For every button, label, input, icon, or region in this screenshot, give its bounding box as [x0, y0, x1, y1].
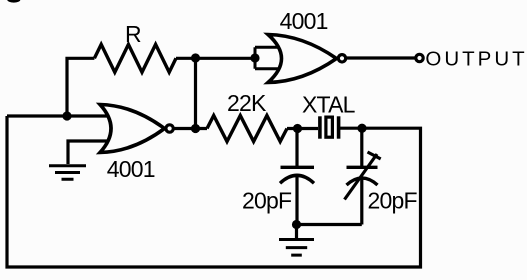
crystal XTAL left plate [318, 116, 322, 138]
NOR gate U1a [268, 35, 337, 83]
wire: vertical from node A down to node C [194, 58, 197, 129]
wire: gate U1b bottom input to ground riser [68, 141, 112, 164]
crystal XTAL right plate [337, 116, 341, 138]
gate U1a input bracket [255, 47, 282, 68]
svg-text:XTAL: XTAL [302, 91, 356, 117]
capacitor C2 bottom plate (curved) [347, 178, 378, 185]
node B junction dot on bracket [250, 53, 259, 62]
wire: bottom connecting C1 and C2 [297, 223, 362, 226]
node dot at gate U1b top input [62, 111, 71, 120]
ground G2 [279, 240, 314, 256]
svg-text:20pF: 20pF [242, 188, 292, 214]
capacitor C2 top plate [347, 166, 378, 169]
node D junction dot [293, 124, 302, 133]
wire: gate U1a output to terminal [347, 56, 415, 59]
wire: gate U1b output to 22K [175, 127, 208, 130]
gate U1b output bubble [166, 125, 173, 132]
wire: C1 bottom to ground node [295, 176, 298, 225]
svg-text:20pF: 20pF [368, 188, 418, 214]
svg-text:22K: 22K [227, 90, 267, 116]
variable capacitor arrow shaft [345, 154, 378, 200]
node C junction dot [191, 124, 200, 133]
svg-text:4001: 4001 [280, 8, 328, 34]
node E junction dot [357, 124, 366, 133]
wire: C2 bottom down [360, 179, 363, 225]
capacitor C1 top plate [281, 166, 315, 169]
cropped text fragment top-left [7, 0, 20, 3]
wire: 22K to crystal left plate [287, 127, 318, 130]
ground G1 [49, 166, 86, 180]
svg-text:OUTPUT: OUTPUT [425, 48, 527, 71]
wire: R left lead and vertical down to gate U1b input [67, 58, 94, 116]
wire: crystal right plate to node E [339, 127, 362, 130]
svg-text:4001: 4001 [107, 156, 155, 182]
resistor 22K [207, 116, 287, 142]
wire: R right lead to gate U1a input bracket [176, 57, 255, 60]
node A junction dot [191, 53, 200, 62]
NOR gate U1b [100, 105, 165, 153]
svg-text:R: R [125, 21, 142, 47]
wire: gate U1b top input from left border [7, 114, 112, 117]
crystal XTAL body [326, 117, 333, 137]
variable capacitor arrow T-bar [368, 152, 381, 159]
wire: node E down to capacitor C2 [360, 128, 363, 166]
wire: feedback loop left border, bottom, right border [7, 116, 421, 267]
ground node junction dot [292, 220, 301, 229]
output terminal circle [416, 54, 423, 61]
capacitor C1 bottom plate (curved) [280, 175, 314, 183]
wire: node D down to capacitor C1 [295, 129, 298, 167]
gate U1a output bubble [338, 55, 345, 62]
wire: ground riser [295, 225, 298, 239]
resistor R1 [94, 44, 176, 72]
